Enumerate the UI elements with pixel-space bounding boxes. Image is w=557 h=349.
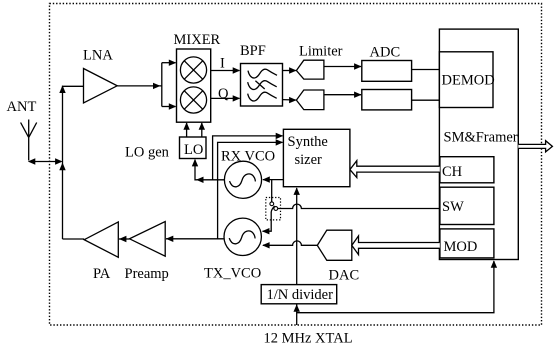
oscillator RX VCO [224, 161, 261, 198]
svg-text:12 MHz XTAL: 12 MHz XTAL [264, 331, 353, 347]
mixer Q cell [180, 87, 206, 113]
label ADC [370, 45, 401, 61]
block synthesizer [283, 129, 350, 186]
bus CH to synthesizer [350, 161, 440, 178]
label Preamp [125, 266, 169, 282]
block LO [180, 137, 207, 159]
wire preamp to PA [119, 236, 130, 242]
ADC Q block [362, 90, 412, 110]
svg-text:MOD: MOD [444, 239, 478, 255]
svg-text:Q: Q [218, 86, 229, 102]
svg-text:SW: SW [442, 199, 464, 215]
svg-text:DAC: DAC [329, 267, 360, 283]
filter BPF block [241, 64, 283, 107]
svg-text:LO: LO [184, 142, 203, 158]
label ANT [7, 99, 37, 115]
label Limiter [299, 43, 343, 59]
label I [220, 55, 225, 71]
amplifier LNA [84, 69, 118, 104]
label PA [93, 266, 111, 282]
oscillator TX VCO [224, 218, 261, 255]
wire switch to TX VCO [262, 212, 271, 234]
label MIXER [174, 32, 221, 48]
wire limiter Q to ADC [324, 92, 362, 98]
svg-text:MIXER: MIXER [174, 32, 221, 48]
amplifier Preamp [130, 222, 166, 257]
svg-text:ADC: ADC [370, 45, 401, 61]
label Q [218, 86, 229, 102]
DAC converter block [317, 230, 352, 260]
svg-text:Preamp: Preamp [125, 266, 169, 282]
svg-text:sizer: sizer [295, 152, 323, 168]
ADC I block [362, 61, 412, 82]
svg-text:LNA: LNA [83, 48, 113, 64]
antenna symbol [21, 120, 37, 161]
svg-text:SM&Framer: SM&Framer [444, 130, 518, 146]
bus output arrow to right [518, 141, 552, 152]
wire DAC to TX VCO (with hop) [262, 241, 317, 249]
block DEMOD [439, 52, 494, 108]
svg-text:PA: PA [93, 266, 111, 282]
wire tune branch down to switch [271, 180, 273, 202]
mixer block [177, 49, 211, 122]
label LNA [83, 48, 113, 64]
label SM&Framer [444, 130, 518, 146]
svg-text:Synthe: Synthe [288, 134, 328, 150]
label LO gen [125, 145, 170, 161]
limiter Q block [296, 90, 324, 110]
label DAC [329, 267, 360, 283]
switch T/R (dashed box) [266, 198, 281, 220]
wire TX VCO feedback to synthesizer (inner) [218, 139, 284, 239]
wire antenna to T/R trunk (double-headed arrow) [28, 158, 63, 164]
block CH [440, 157, 494, 183]
svg-text:LO gen: LO gen [125, 145, 170, 161]
wire T/R trunk vertical [59, 85, 83, 239]
wire BPF Q output to limiter [283, 97, 297, 103]
wire mixer I output to BPF [211, 67, 241, 73]
svg-text:ANT: ANT [7, 99, 37, 115]
svg-text:TX_VCO: TX_VCO [204, 266, 261, 282]
label 12 MHz XTAL [264, 331, 353, 347]
wire crystal to MOD clock [297, 260, 497, 313]
bus MOD to DAC [352, 236, 440, 255]
label BPF [240, 43, 266, 59]
wire crystal reference vertical [294, 187, 300, 325]
wire BPF I output to limiter [283, 67, 297, 73]
limiter I block [296, 60, 324, 79]
wire TX VCO to preamp [166, 236, 224, 242]
wire switch to SW block (with hop) [278, 204, 440, 208]
wire RX VCO to LO [192, 159, 225, 183]
svg-text:DEMOD: DEMOD [442, 73, 495, 89]
wire mixer Q output to BPF [211, 95, 241, 101]
block MOD [440, 229, 494, 258]
svg-text:BPF: BPF [240, 43, 266, 59]
wire limiter I to ADC [324, 63, 362, 69]
label TX_VCO [204, 266, 261, 282]
block SW [440, 187, 494, 224]
wire LNA output to mixer split [117, 60, 176, 110]
divider 1/N block [261, 285, 337, 304]
wire synthesizer tune to RX VCO [262, 176, 283, 182]
wire PA to T/R trunk [63, 238, 85, 240]
svg-text:I: I [220, 55, 225, 71]
svg-text:CH: CH [442, 164, 463, 180]
svg-text:Limiter: Limiter [299, 43, 343, 59]
amplifier PA [84, 222, 118, 257]
label RX VCO [221, 148, 275, 164]
wire ADC I to DEMOD [412, 69, 440, 71]
baseband SM&Framer block [439, 29, 518, 259]
svg-text:1/N divider: 1/N divider [267, 287, 334, 303]
wire RX VCO feedback to synthesizer (outer) [213, 133, 284, 180]
wire LO to mixer (two arrows) [183, 122, 205, 137]
wire ADC Q to DEMOD [412, 99, 440, 101]
mixer I cell [180, 57, 206, 83]
